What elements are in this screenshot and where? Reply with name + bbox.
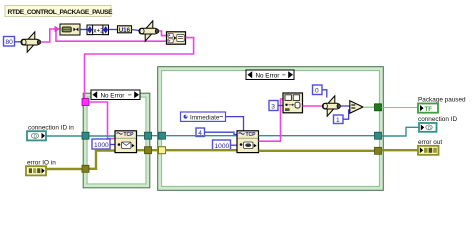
indicator error out xyxy=(418,139,442,155)
wire olive through S2 xyxy=(165,149,237,151)
string subset node SS1 xyxy=(283,93,303,113)
tunnel boolean S2 right border xyxy=(375,104,382,111)
wire teal connection row through S1 xyxy=(46,135,165,137)
type cast U2 xyxy=(139,21,159,41)
indicator Package paused xyxy=(418,97,466,113)
svg-text:0: 0 xyxy=(428,126,431,132)
numeric constant 80 xyxy=(4,37,15,47)
wire blue SL1 to expression node xyxy=(80,29,87,31)
type cast U3 xyxy=(323,96,341,116)
svg-text:x+2: x+2 xyxy=(93,27,104,34)
numeric constant 1000 (S2) xyxy=(213,140,231,150)
expression node x+2 xyxy=(87,25,109,35)
tunnel teal S1 right border xyxy=(145,132,152,139)
conversion node U16 xyxy=(118,26,132,34)
wire pink TCP read data up to string subset xyxy=(259,99,284,141)
wire pink string subset to typecast U3 xyxy=(303,105,324,107)
tunnel teal S2 right border xyxy=(375,132,382,139)
selector label "No Error" of S1 xyxy=(91,90,140,100)
free label RTDE_CONTROL_PACKAGE_PAUSE xyxy=(5,6,113,17)
indicator connection ID xyxy=(418,116,457,132)
enum constant Immediate xyxy=(181,112,226,121)
wire teal to connection ID indicator xyxy=(382,127,420,136)
wire pink concatenate out, down and left to S1 tunnel xyxy=(85,38,194,99)
wire green boolean to indicator xyxy=(382,107,419,109)
svg-text:No Error: No Error xyxy=(101,92,125,99)
wire blue 4 to TCP read xyxy=(205,132,238,134)
wire blue 3 to string subset xyxy=(278,105,283,107)
svg-text:TCP: TCP xyxy=(246,132,257,138)
numeric constant 1000 (S1) xyxy=(92,139,110,149)
control connection ID in xyxy=(27,125,74,141)
wire blue 1000 to TCP read xyxy=(231,144,238,146)
wire blue 1 to equal lower input xyxy=(343,110,350,119)
svg-text:1000: 1000 xyxy=(94,142,109,149)
svg-text:0: 0 xyxy=(315,87,319,94)
svg-text:RTDE_CONTROL_PACKAGE_PAUSE: RTDE_CONTROL_PACKAGE_PAUSE xyxy=(8,9,114,16)
numeric constant 1 xyxy=(334,115,344,124)
wire olive error row into S1 xyxy=(46,150,165,169)
wire olive TCP read to right tunnel xyxy=(259,150,379,152)
svg-text:TCP: TCP xyxy=(124,132,135,138)
tunnel teal S1 left border xyxy=(82,132,89,139)
svg-text:1: 1 xyxy=(336,117,340,124)
svg-text:0: 0 xyxy=(34,134,37,140)
wire olive to error out indicator xyxy=(382,149,419,151)
wire blue U3 to equal xyxy=(341,105,351,107)
wire blue x+2 to U16 xyxy=(109,29,118,31)
string length SL1 xyxy=(60,24,80,35)
wire blue 1000 to TCP write xyxy=(110,144,115,146)
tunnel teal S2 left border xyxy=(159,132,166,139)
svg-text:80: 80 xyxy=(6,39,14,46)
wire teal TCP read to right tunnel xyxy=(259,135,379,137)
wire teal through S2 xyxy=(165,135,237,137)
svg-text:U16: U16 xyxy=(119,27,131,34)
tunnel olive S2 right border xyxy=(375,147,382,154)
svg-text:1000: 1000 xyxy=(215,143,230,150)
selector label "No Error" of S2 xyxy=(246,70,294,80)
svg-text:3: 3 xyxy=(271,103,275,110)
concatenate strings CC1 xyxy=(167,32,186,44)
wire arrowhead into string length xyxy=(55,26,61,32)
tunnel hollow S2 left border xyxy=(159,147,166,154)
TCP write node W1 xyxy=(115,131,137,153)
equal? node E1 xyxy=(350,101,363,113)
wire pink inside S1 down to TCP write xyxy=(89,102,115,139)
wire green equal to boolean tunnel xyxy=(363,106,378,108)
numeric constant 4 xyxy=(196,128,205,137)
wire blue 80 to typecast U0 xyxy=(15,41,22,43)
TCP read node R1 xyxy=(237,131,259,153)
svg-text:Immediate: Immediate xyxy=(190,114,220,121)
svg-text:error out: error out xyxy=(418,139,442,146)
wire pink U0 out, up and branch xyxy=(41,29,167,42)
while/case structure S2 (right, No Error frame) xyxy=(158,67,384,191)
svg-text:connection ID: connection ID xyxy=(418,116,457,123)
wire blue Immediate down to TCP read xyxy=(226,117,244,131)
tunnel olive S1 left border xyxy=(82,165,89,172)
svg-text:Package paused: Package paused xyxy=(418,97,466,104)
tunnel magenta on S1 left border xyxy=(82,99,89,106)
control error IO in xyxy=(26,160,56,176)
svg-text:No Error: No Error xyxy=(256,72,280,79)
case structure S1 (left, No Error frame) xyxy=(83,93,150,188)
wire blue U16 to typecast U2 xyxy=(132,30,140,31)
tunnel olive S1 right border xyxy=(145,147,152,154)
svg-text:TF: TF xyxy=(425,106,433,113)
wire pink U2 to concatenate xyxy=(159,31,167,36)
numeric constant 3 xyxy=(269,101,278,111)
numeric constant 0 xyxy=(313,85,323,95)
wire blue 0 to typecast U3 type input xyxy=(323,90,327,98)
type cast U0 xyxy=(21,32,41,52)
